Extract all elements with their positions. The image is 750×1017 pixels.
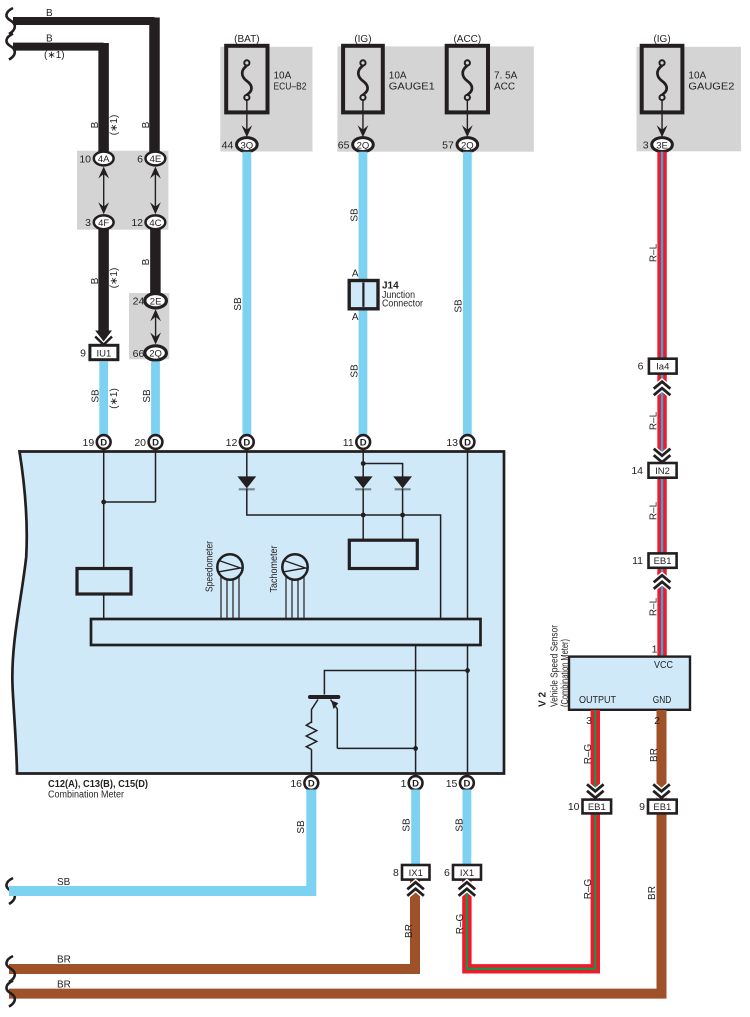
svg-text:11: 11 bbox=[632, 555, 643, 567]
wire diode D12 to bus line bbox=[247, 488, 441, 619]
combination meter box (torn left edge) bbox=[12, 452, 504, 774]
svg-text:(BAT): (BAT) bbox=[234, 34, 259, 45]
svg-text:SB: SB bbox=[455, 818, 466, 832]
wire resistor to pin 16 bbox=[311, 750, 313, 777]
svg-text:3E: 3E bbox=[656, 140, 668, 151]
label B on wire above 2E bbox=[141, 258, 152, 265]
svg-text:3: 3 bbox=[85, 217, 91, 229]
connector 10 EB1 bbox=[568, 800, 611, 814]
wire SB pin15 to IX1 bbox=[462, 790, 471, 866]
svg-text:Vehicle Speed Sensor: Vehicle Speed Sensor bbox=[550, 624, 561, 707]
svg-text:(IG): (IG) bbox=[354, 34, 371, 45]
wire R-L from 3E to VSS VCC bbox=[657, 152, 666, 657]
svg-text:IX1: IX1 bbox=[460, 868, 474, 879]
connector 14 IN2 bbox=[631, 463, 676, 478]
internal block (meter circuit) bbox=[349, 540, 417, 568]
speedometer gauge bbox=[205, 540, 244, 620]
wire pin13 to bus bar bbox=[467, 449, 469, 620]
chevrons below Ia4 bbox=[654, 382, 671, 396]
svg-text:ECU–B2: ECU–B2 bbox=[274, 82, 307, 93]
svg-text:1: 1 bbox=[401, 778, 407, 790]
svg-text:57: 57 bbox=[442, 140, 454, 152]
svg-text:(Combination Meter): (Combination Meter) bbox=[560, 639, 571, 707]
svg-text:SB: SB bbox=[233, 297, 244, 311]
wire SB from 3Q to pin 12 bbox=[242, 152, 251, 436]
svg-text:EB1: EB1 bbox=[653, 802, 671, 813]
transistor Q1 left leg to resistor bbox=[312, 700, 319, 724]
svg-text:4A: 4A bbox=[98, 154, 110, 165]
wire SB from 2Q(57) to pin 13 bbox=[463, 152, 472, 436]
tachometer gauge bbox=[269, 545, 308, 620]
meter pin 12 D bbox=[226, 435, 254, 449]
bus bar bbox=[91, 619, 481, 645]
chevrons above EB1(10) bbox=[587, 784, 604, 798]
svg-text:BR: BR bbox=[57, 955, 71, 966]
label (*1) below IU1 bbox=[109, 388, 120, 409]
label R-G above corner bbox=[455, 913, 466, 934]
label Combination Meter bbox=[48, 790, 125, 801]
svg-text:D: D bbox=[152, 438, 159, 449]
wire pin20 down bbox=[155, 449, 157, 502]
gray junction block 2E/2Q bbox=[129, 293, 169, 359]
svg-text:2: 2 bbox=[654, 715, 660, 727]
wire SB (*1) from IU1 to pin 19 bbox=[99, 361, 108, 436]
junction arrows between 2E and 2Q bbox=[150, 309, 161, 344]
transistor Q1 base bar bbox=[310, 695, 338, 699]
meter pin 1 D (bottom) bbox=[401, 776, 423, 790]
svg-text:ACC: ACC bbox=[494, 82, 515, 93]
wire B (upper) with break symbol bbox=[6, 8, 154, 152]
diode D11a bbox=[354, 476, 373, 489]
svg-text:B: B bbox=[141, 258, 152, 265]
svg-text:24: 24 bbox=[133, 296, 145, 308]
svg-text:6: 6 bbox=[137, 153, 143, 165]
svg-text:4C: 4C bbox=[149, 218, 161, 229]
svg-text:Combination Meter: Combination Meter bbox=[48, 790, 125, 801]
connector 11 EB1 bbox=[632, 553, 677, 567]
label BR above EB1(9) bbox=[649, 748, 660, 762]
svg-text:10A: 10A bbox=[688, 71, 706, 82]
label (Combination Meter) bbox=[560, 639, 571, 707]
node on pin15 line bbox=[465, 668, 470, 673]
label R-L between EB1 and VSS bbox=[649, 597, 660, 616]
label B on left vertical wire bbox=[90, 121, 101, 128]
label R-L upper bbox=[649, 243, 660, 262]
wire B (*1) (lower) with break symbol bbox=[6, 34, 103, 153]
svg-text:BR: BR bbox=[649, 748, 660, 762]
svg-text:2Q: 2Q bbox=[461, 140, 474, 151]
connector 6 4E bbox=[137, 152, 165, 166]
wire pin11 down bbox=[362, 449, 364, 477]
svg-text:GND: GND bbox=[653, 695, 672, 706]
node pin11 branch bbox=[361, 461, 403, 477]
svg-text:4F: 4F bbox=[98, 218, 109, 229]
svg-text:R–G: R–G bbox=[583, 878, 594, 899]
connector 6 Ia4 bbox=[638, 359, 677, 374]
svg-text:44: 44 bbox=[222, 140, 234, 152]
fuse GAUGE1 10A (IG) with connector 65 2Q bbox=[337, 34, 533, 152]
svg-text:C12(A), C13(B), C15(D): C12(A), C13(B), C15(D) bbox=[48, 779, 148, 790]
label Vehicle Speed Sensor bbox=[550, 624, 561, 707]
node emitter junction bbox=[413, 746, 418, 751]
svg-text:2E: 2E bbox=[150, 296, 162, 307]
svg-text:19: 19 bbox=[83, 437, 95, 449]
svg-text:3: 3 bbox=[586, 715, 592, 727]
svg-text:SB: SB bbox=[454, 299, 465, 313]
label BR below IX1(8) bbox=[404, 924, 415, 938]
svg-text:VCC: VCC bbox=[654, 660, 673, 671]
label R-G above EB1 bbox=[583, 743, 594, 764]
wire D11b to block bbox=[402, 488, 404, 540]
vehicle speed sensor V2 box bbox=[569, 657, 690, 710]
chevrons above EB1(9) bbox=[653, 784, 670, 798]
svg-text:SB: SB bbox=[142, 389, 153, 403]
svg-text:SB: SB bbox=[57, 877, 71, 888]
svg-text:R–G: R–G bbox=[583, 743, 594, 764]
svg-text:BR: BR bbox=[647, 886, 658, 900]
wire pin12 down bbox=[246, 449, 248, 477]
connector 24 2E bbox=[133, 294, 167, 308]
svg-text:R–L: R–L bbox=[649, 411, 660, 430]
svg-text:SB: SB bbox=[350, 208, 361, 222]
svg-text:12: 12 bbox=[226, 437, 238, 449]
label SB on GAUGE1 wire (lower) bbox=[350, 364, 361, 378]
label SB on ACC wire bbox=[454, 299, 465, 313]
wire B from 4C to 2E bbox=[150, 229, 161, 295]
svg-text:3Q: 3Q bbox=[241, 140, 254, 151]
meter pin 16 D (bottom) bbox=[290, 776, 318, 790]
svg-text:B: B bbox=[90, 277, 101, 284]
svg-text:SB: SB bbox=[91, 389, 102, 403]
wire SB from 2Q to pin 20 bbox=[151, 361, 160, 436]
connector 66 2Q bbox=[133, 346, 167, 360]
svg-text:(IG): (IG) bbox=[653, 34, 670, 45]
svg-text:10: 10 bbox=[568, 801, 580, 813]
wire pin19 to resistor block bbox=[103, 449, 105, 569]
svg-text:20: 20 bbox=[134, 437, 146, 449]
pin 3 of VSS bbox=[586, 715, 592, 727]
svg-text:Tachometer: Tachometer bbox=[269, 545, 280, 593]
wire BR from 8 IX1 to left break bbox=[6, 880, 415, 982]
node diode bus b bbox=[400, 513, 405, 518]
svg-text:R–L: R–L bbox=[649, 243, 660, 262]
svg-text:10A: 10A bbox=[389, 71, 407, 82]
meter pin 13 D bbox=[446, 435, 474, 449]
svg-text:EB1: EB1 bbox=[588, 802, 606, 813]
svg-text:9: 9 bbox=[639, 801, 645, 813]
svg-text:13: 13 bbox=[446, 437, 458, 449]
chevrons below EB1(11) bbox=[654, 575, 671, 589]
wire bus bar to pin 1 bbox=[415, 645, 417, 776]
svg-text:10A: 10A bbox=[274, 71, 292, 82]
label R-L between IN2 and EB1 bbox=[649, 501, 660, 520]
svg-text:BR: BR bbox=[404, 924, 415, 938]
svg-text:GAUGE1: GAUGE1 bbox=[389, 82, 435, 93]
svg-text:D: D bbox=[308, 779, 315, 790]
svg-text:11: 11 bbox=[343, 437, 354, 449]
svg-text:R–L: R–L bbox=[649, 597, 660, 616]
svg-text:(∗1): (∗1) bbox=[109, 115, 120, 136]
svg-text:B: B bbox=[90, 121, 101, 128]
svg-text:Speedometer: Speedometer bbox=[205, 540, 216, 592]
svg-text:B: B bbox=[46, 34, 53, 45]
label SB below IU1 bbox=[91, 389, 102, 403]
svg-text:D: D bbox=[100, 438, 107, 449]
pin 1 of VSS bbox=[652, 644, 658, 656]
svg-text:(∗1): (∗1) bbox=[44, 50, 65, 61]
transistor Q1 emitter with arrow bbox=[331, 700, 339, 749]
diode D11b bbox=[393, 476, 412, 489]
wire R-G from VSS OUTPUT to 6 IX1 bbox=[467, 710, 595, 969]
svg-text:9: 9 bbox=[80, 347, 86, 359]
meter pin 15 D (bottom) bbox=[446, 776, 474, 790]
svg-text:D: D bbox=[463, 779, 470, 790]
svg-text:14: 14 bbox=[631, 465, 643, 477]
connector 3 4F bbox=[85, 215, 113, 229]
label R-G below EB1 bbox=[583, 878, 594, 899]
svg-text:SB: SB bbox=[296, 820, 307, 834]
pin 2 of VSS bbox=[654, 715, 660, 727]
svg-text:65: 65 bbox=[338, 140, 350, 152]
svg-text:8: 8 bbox=[393, 867, 399, 879]
wire SB from 2Q(65) to pin 11 bbox=[359, 152, 368, 436]
svg-text:GAUGE2: GAUGE2 bbox=[688, 82, 734, 93]
svg-text:R–G: R–G bbox=[455, 913, 466, 934]
svg-text:7. 5A: 7. 5A bbox=[494, 71, 518, 82]
svg-text:(∗1): (∗1) bbox=[109, 388, 120, 409]
junction arrows between connectors at x=155.4 bbox=[150, 167, 161, 215]
wire base feed bbox=[324, 671, 467, 695]
wire BR from VSS GND to bottom left break bbox=[6, 710, 661, 1007]
svg-text:15: 15 bbox=[446, 778, 458, 790]
junction connector J14 bbox=[349, 268, 423, 323]
chevrons above IN2 bbox=[654, 449, 671, 463]
svg-text:D: D bbox=[243, 438, 250, 449]
svg-text:V 2: V 2 bbox=[538, 692, 549, 707]
svg-text:2Q: 2Q bbox=[149, 349, 162, 360]
svg-text:SB: SB bbox=[350, 364, 361, 378]
fuse ACC 7.5A (ACC) with connector 57 2Q bbox=[442, 34, 518, 152]
svg-text:EB1: EB1 bbox=[654, 556, 672, 567]
label V 2 bbox=[538, 692, 549, 707]
svg-text:A: A bbox=[352, 268, 359, 279]
svg-text:2Q: 2Q bbox=[357, 140, 370, 151]
svg-text:IN2: IN2 bbox=[655, 466, 670, 477]
label C12(A), C13(B), C15(D) bbox=[48, 779, 148, 790]
svg-text:IX1: IX1 bbox=[409, 868, 423, 879]
label SB on pin1 wire bbox=[402, 818, 413, 832]
svg-text:(ACC): (ACC) bbox=[453, 34, 481, 45]
svg-text:3: 3 bbox=[643, 140, 649, 152]
label SB on GAUGE1 wire (upper) bbox=[350, 208, 361, 222]
svg-text:(∗1): (∗1) bbox=[109, 268, 120, 289]
connector 9 IU1 bbox=[80, 345, 118, 359]
svg-text:Connector: Connector bbox=[382, 299, 424, 310]
svg-text:6: 6 bbox=[638, 361, 644, 373]
wire resistor block to bus bar bbox=[103, 594, 105, 620]
diode D12 bbox=[237, 476, 256, 489]
svg-text:66: 66 bbox=[133, 348, 145, 360]
label R-L between Ia4 and IN2 bbox=[649, 411, 660, 430]
label (*1) on left vertical wire bbox=[109, 115, 120, 136]
label B on wire above IU1 bbox=[90, 277, 101, 284]
svg-text:BR: BR bbox=[57, 980, 71, 991]
connector 10 4A bbox=[79, 152, 113, 166]
node diode bus a bbox=[361, 513, 366, 518]
wire B (*1) from 4F to IU1 bbox=[95, 229, 112, 345]
svg-text:OUTPUT: OUTPUT bbox=[579, 695, 616, 706]
wire SB pin1 to IX1 bbox=[411, 790, 420, 866]
meter pin 19 D bbox=[83, 435, 111, 449]
label SB on BAT wire bbox=[233, 297, 244, 311]
gray junction block 4A/4E/4F/4C bbox=[77, 151, 168, 230]
label (*1) on wire above IU1 bbox=[109, 268, 120, 289]
wire SB pin16 to left break bbox=[6, 790, 311, 905]
svg-text:6: 6 bbox=[444, 867, 450, 879]
svg-text:Ia4: Ia4 bbox=[656, 362, 669, 373]
svg-text:D: D bbox=[464, 438, 471, 449]
junction arrows between connectors at x=103.7 bbox=[98, 167, 109, 215]
chevrons below IX1(8) bbox=[407, 882, 424, 896]
connector 12 4C bbox=[131, 215, 165, 229]
label SB below 2Q bbox=[142, 389, 153, 403]
wire emitter to pin1 line bbox=[337, 747, 415, 749]
chevrons below IX1(6) bbox=[459, 882, 476, 896]
node junction pins 19-20 bbox=[101, 500, 155, 505]
svg-text:IU1: IU1 bbox=[97, 348, 112, 359]
svg-text:12: 12 bbox=[131, 217, 143, 229]
label B on right vertical wire bbox=[141, 121, 152, 128]
svg-text:SB: SB bbox=[402, 818, 413, 832]
svg-text:16: 16 bbox=[290, 778, 302, 790]
svg-text:B: B bbox=[46, 8, 53, 19]
svg-text:D: D bbox=[412, 779, 419, 790]
resistor R1 bbox=[306, 722, 316, 750]
fuse GAUGE2 10A (IG) with connector 3 3E bbox=[637, 34, 742, 152]
meter pin 11 D bbox=[343, 435, 370, 449]
svg-text:B: B bbox=[141, 121, 152, 128]
resistor block on pin19 line bbox=[77, 569, 131, 595]
svg-text:1: 1 bbox=[652, 644, 658, 656]
wire D11a to block bbox=[362, 488, 364, 540]
svg-text:R–L: R–L bbox=[649, 501, 660, 520]
svg-text:10: 10 bbox=[79, 153, 91, 165]
fuse ECU-B2 10A (BAT) with connector 44 3Q bbox=[220, 34, 312, 152]
connector 8 IX1 bbox=[393, 865, 430, 880]
wire bus bar to pin 15 bbox=[467, 645, 469, 776]
label SB on pin15 wire bbox=[455, 818, 466, 832]
label SB on pin16 wire bbox=[296, 820, 307, 834]
svg-text:A: A bbox=[352, 312, 359, 323]
svg-text:4E: 4E bbox=[150, 154, 162, 165]
meter pin 20 D bbox=[134, 435, 162, 449]
connector 6 IX1 bbox=[444, 865, 481, 880]
label BR below EB1(9) bbox=[647, 886, 658, 900]
svg-text:D: D bbox=[360, 438, 367, 449]
connector 9 EB1 bbox=[639, 800, 677, 814]
